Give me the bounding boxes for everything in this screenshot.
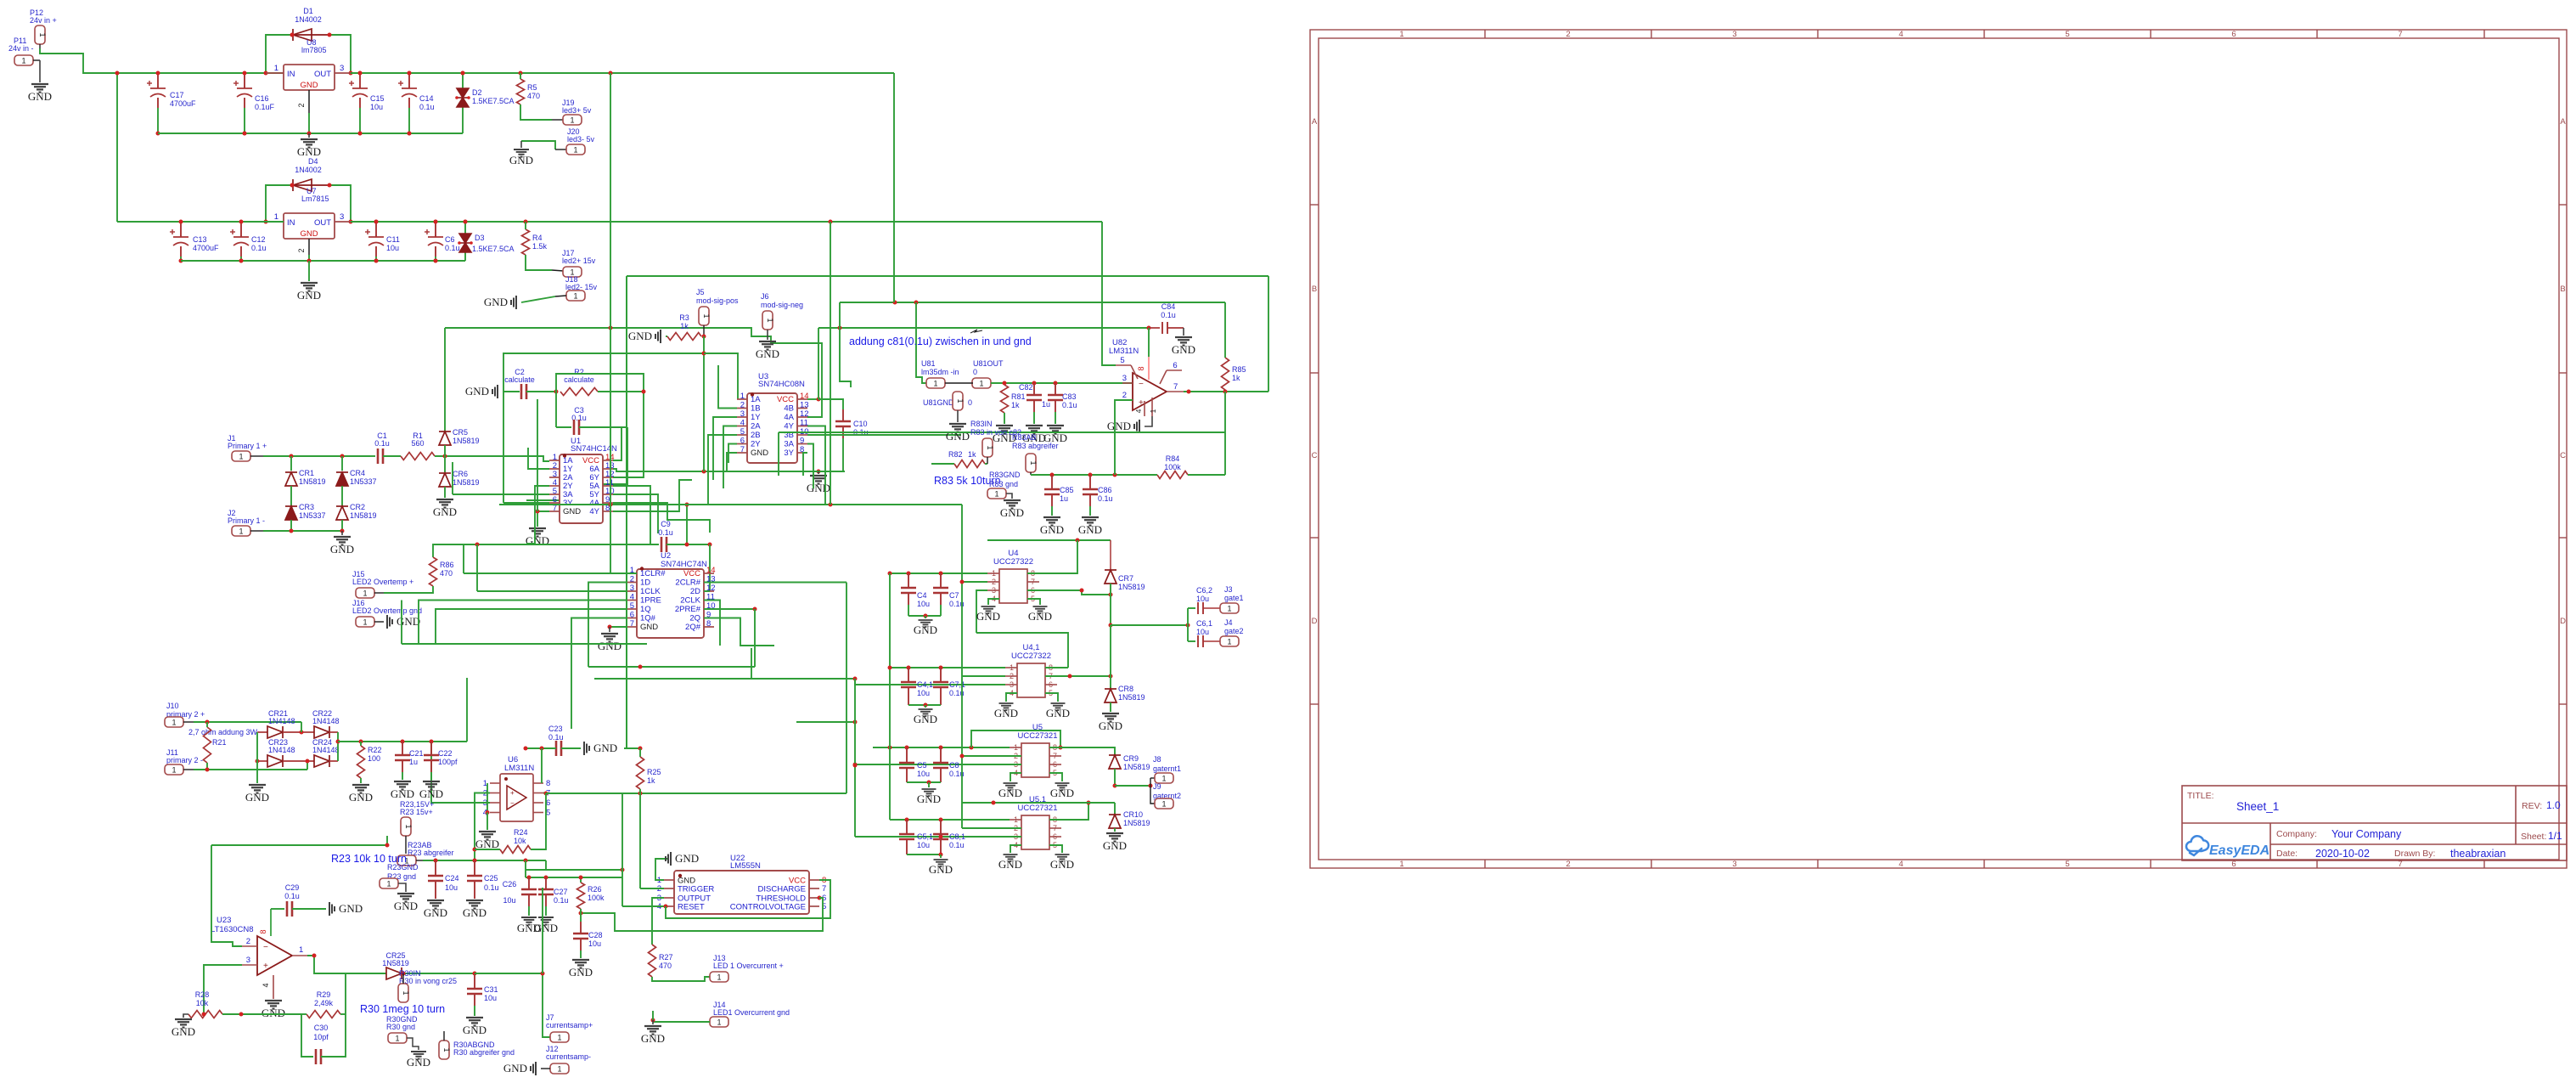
svg-text:1CLR#: 1CLR#: [640, 569, 666, 578]
svg-text:10u: 10u: [484, 994, 497, 1002]
wire U23 pin3: [204, 965, 242, 1014]
svg-text:Date:: Date:: [2276, 849, 2298, 859]
svg-text:1: 1: [172, 765, 176, 774]
ground C27: [538, 917, 554, 925]
svg-text:D1: D1: [303, 7, 313, 15]
resistor R1 560: [401, 453, 435, 460]
wire R1 to U1: [435, 456, 549, 461]
svg-text:3: 3: [1732, 30, 1736, 39]
svg-text:7: 7: [740, 445, 745, 454]
svg-text:10u: 10u: [445, 883, 458, 892]
wire 24v+ to rail: [40, 48, 117, 73]
svg-text:UCC27322: UCC27322: [993, 557, 1033, 567]
ground U5 pin5: [1049, 773, 1062, 781]
wire x643 drop: [545, 860, 547, 870]
wire U22 output to R27: [652, 898, 664, 945]
svg-text:CR1: CR1: [299, 469, 314, 477]
svg-text:R29: R29: [317, 990, 331, 999]
svg-text:C82: C82: [1019, 383, 1033, 392]
diode CR6 1N5819: [444, 456, 446, 472]
svg-text:1A: 1A: [751, 395, 761, 404]
svg-text:14: 14: [800, 392, 809, 401]
ground U3: [818, 471, 819, 474]
svg-text:U23: U23: [217, 916, 231, 925]
wire U8 pin2 to ground rail: [308, 113, 310, 133]
svg-text:13: 13: [800, 401, 809, 410]
svg-text:1N5819: 1N5819: [1123, 763, 1150, 771]
svg-text:addung c81(0.1u) zwischen in u: addung c81(0.1u) zwischen in und gnd: [849, 336, 1032, 347]
svg-text:6: 6: [630, 611, 634, 620]
ground CR6: [444, 487, 446, 498]
wire U6 output: [543, 793, 546, 794]
svg-text:0.1u: 0.1u: [949, 841, 965, 849]
svg-text:calculate: calculate: [564, 375, 594, 384]
svg-text:1: 1: [717, 1018, 721, 1026]
wire feedback rail y995: [386, 836, 388, 845]
svg-text:CR4: CR4: [350, 469, 365, 477]
svg-text:EasyEDA: EasyEDA: [2209, 843, 2269, 858]
wire y945 link: [962, 802, 1115, 804]
wire x974 vertical: [830, 222, 831, 505]
diode CR2 1N5819: [341, 486, 343, 506]
svg-text:1k: 1k: [968, 450, 976, 459]
ground C86: [1082, 517, 1099, 526]
svg-text:R30 abgreifer gnd: R30 abgreifer gnd: [453, 1048, 515, 1057]
ground J2 row: [341, 531, 343, 535]
ground CR10: [1114, 828, 1116, 832]
svg-text:1B: 1B: [751, 404, 761, 414]
wire x633 vertical: [537, 399, 538, 511]
svg-text:TITLE:: TITLE:: [2187, 791, 2214, 801]
svg-text:6: 6: [1053, 832, 1057, 841]
ground J6: [767, 330, 768, 340]
svg-text:C: C: [1312, 451, 1318, 460]
wire lower bus y785: [588, 666, 755, 668]
svg-text:GND: GND: [1050, 858, 1074, 871]
svg-text:R85: R85: [1232, 365, 1246, 374]
svg-text:J10: J10: [166, 702, 179, 710]
ground C28: [572, 960, 589, 968]
svg-text:C85: C85: [1060, 486, 1074, 494]
svg-text:U81OUT: U81OUT: [973, 359, 1004, 368]
wire output bus y934: [546, 793, 846, 794]
svg-text:GND: GND: [300, 229, 318, 239]
svg-text:2B: 2B: [751, 431, 761, 440]
svg-text:2: 2: [297, 248, 306, 252]
svg-text:10u: 10u: [1196, 628, 1209, 636]
svg-text:10u: 10u: [588, 939, 601, 948]
svg-text:3: 3: [1010, 680, 1014, 689]
diode CR5 1N5819: [444, 328, 446, 432]
svg-text:currentsamp-: currentsamp-: [546, 1052, 591, 1061]
wire bridge left leg: [256, 732, 258, 783]
svg-text:TRIGGER: TRIGGER: [678, 885, 714, 894]
svg-text:GND: GND: [424, 906, 447, 919]
wire U6 pin8 supply: [541, 748, 543, 783]
svg-text:A: A: [2560, 117, 2566, 127]
resistor R85 1k: [1222, 358, 1229, 390]
svg-text:8: 8: [546, 779, 550, 788]
svg-text:6: 6: [740, 437, 745, 446]
wire U5 label loop: [971, 730, 1060, 747]
svg-text:0.1uF: 0.1uF: [255, 103, 275, 111]
wire bridge output: [338, 741, 467, 742]
svg-text:2,49k: 2,49k: [314, 999, 334, 1007]
svg-text:SN74HC08N: SN74HC08N: [758, 380, 805, 389]
svg-text:3Y: 3Y: [784, 448, 794, 458]
svg-text:GND: GND: [433, 505, 457, 518]
svg-text:mod-sig-neg: mod-sig-neg: [761, 301, 803, 309]
ground C83: [1047, 426, 1064, 434]
svg-text:0.1u: 0.1u: [1062, 401, 1077, 409]
diode CR3 1N5337: [290, 486, 292, 506]
ground rail bottom of U7 block: [181, 260, 465, 262]
svg-text:1: 1: [557, 1033, 561, 1041]
svg-text:R22: R22: [368, 746, 382, 754]
svg-text:100k: 100k: [1164, 463, 1181, 471]
wire U4 pin2 feed: [962, 581, 987, 583]
svg-text:R82: R82: [948, 450, 963, 459]
svg-text:5: 5: [1120, 356, 1124, 365]
svg-text:0: 0: [973, 368, 977, 376]
svg-text:1: 1: [992, 569, 996, 578]
ground flag J12: [531, 1062, 536, 1075]
svg-text:1N4148: 1N4148: [268, 746, 295, 754]
svg-text:2Q: 2Q: [689, 614, 700, 623]
svg-text:C11: C11: [386, 235, 400, 244]
wire rail y1033: [526, 877, 622, 878]
svg-text:1Y: 1Y: [751, 413, 761, 422]
svg-text:1: 1: [402, 990, 410, 995]
svg-text:1: 1: [766, 318, 774, 322]
svg-text:1: 1: [986, 445, 994, 449]
wire U5 pin8 to CR9: [1049, 747, 1060, 748]
svg-text:CONTROLVOLTAGE: CONTROLVOLTAGE: [730, 903, 806, 912]
svg-text:C14: C14: [419, 94, 434, 103]
svg-text:7: 7: [1031, 578, 1035, 586]
svg-text:GND: GND: [756, 347, 779, 360]
wire U3 vcc: [807, 398, 818, 400]
svg-text:R81: R81: [1011, 392, 1026, 401]
ground C84: [1183, 328, 1184, 336]
svg-text:2CLK: 2CLK: [680, 596, 700, 606]
ground R28: [183, 1014, 188, 1018]
svg-text:LED2 Overtemp +: LED2 Overtemp +: [352, 578, 413, 586]
svg-text:B: B: [2560, 285, 2565, 294]
svg-text:4: 4: [1898, 30, 1903, 39]
wire U6 pins 1 4 gnd: [487, 783, 488, 813]
svg-text:GND: GND: [330, 543, 354, 556]
svg-text:J9: J9: [1153, 782, 1161, 791]
svg-text:R83 abgreifer: R83 abgreifer: [1012, 442, 1059, 450]
svg-text:1Q#: 1Q#: [640, 614, 656, 623]
wire C84 to pin8: [1148, 328, 1150, 357]
ground J14: [652, 1020, 654, 1024]
ground U4,1 pin5: [1045, 693, 1058, 702]
svg-text:1/1: 1/1: [2548, 830, 2562, 842]
svg-text:R30 gnd: R30 gnd: [386, 1023, 415, 1031]
resistor R5 470: [517, 79, 525, 104]
wire x733 vertical: [622, 793, 623, 906]
wire U1 left pin feeds: [453, 494, 549, 495]
svg-text:100pf: 100pf: [438, 758, 458, 766]
ground U5,1 pin4: [1010, 845, 1021, 853]
svg-text:J3: J3: [1224, 585, 1233, 594]
wire U4 top loop: [987, 539, 1111, 541]
wire U4,1 pin3 feed: [855, 678, 1005, 685]
svg-text:1: 1: [1014, 815, 1018, 824]
svg-text:R28: R28: [195, 990, 210, 999]
diode CR8 1N5819: [1110, 676, 1111, 689]
svg-text:C31: C31: [484, 985, 498, 994]
wire U1 pin13 bus: [613, 469, 845, 471]
wire U5,1 pin3 feed: [855, 836, 1021, 838]
svg-text:R83 gnd: R83 gnd: [989, 480, 1018, 488]
wire vcc bus y386: [818, 327, 1149, 329]
svg-text:A: A: [1312, 117, 1318, 127]
wire U5,1 pin8 to CR10: [1049, 803, 1088, 820]
svg-text:4Y: 4Y: [784, 422, 794, 432]
resistor R4 1.5k: [522, 229, 530, 255]
svg-text:2: 2: [1010, 672, 1014, 680]
svg-text:C86: C86: [1098, 486, 1112, 494]
svg-text:GND: GND: [929, 863, 953, 876]
svg-text:5: 5: [2065, 30, 2069, 39]
svg-text:LT1630CN8: LT1630CN8: [211, 925, 254, 934]
svg-text:1: 1: [1161, 774, 1166, 782]
wire CR5 net long: [445, 328, 822, 417]
svg-text:+: +: [263, 962, 268, 971]
svg-text:2D: 2D: [690, 587, 700, 596]
svg-text:C27: C27: [554, 888, 568, 896]
wire U23 output: [307, 956, 386, 973]
svg-text:1N4148: 1N4148: [268, 717, 295, 725]
wire threshold loop: [581, 898, 823, 931]
svg-text:1CLK: 1CLK: [640, 587, 661, 596]
svg-text:D: D: [2560, 617, 2566, 626]
svg-text:GND: GND: [628, 330, 652, 342]
svg-text:2A: 2A: [751, 422, 761, 432]
svg-text:C9: C9: [661, 520, 671, 528]
svg-text:R25: R25: [647, 768, 661, 776]
svg-text:C10: C10: [853, 420, 868, 428]
resistor R25 1k: [639, 748, 641, 757]
wire J2 row: [263, 530, 342, 532]
wire U5,1 pin2 feed: [962, 827, 1021, 829]
svg-text:GND: GND: [593, 742, 617, 754]
svg-text:1: 1: [363, 618, 367, 626]
wire R28 R29 rail: [222, 1013, 301, 1015]
diode CR10 1N5819: [1109, 815, 1121, 828]
svg-text:1N5819: 1N5819: [453, 437, 480, 445]
svg-text:1: 1: [933, 379, 937, 387]
wire U5 pin3 feed: [855, 764, 1021, 765]
wire y850 stub: [796, 721, 855, 723]
svg-text:C8: C8: [949, 761, 959, 770]
svg-text:calculate: calculate: [504, 375, 535, 384]
svg-text:6: 6: [2231, 30, 2236, 39]
svg-text:R83AB: R83AB: [1012, 433, 1037, 442]
svg-text:1: 1: [570, 116, 574, 124]
svg-text:10u: 10u: [503, 896, 515, 905]
connector J13 LED 1 Overcurrent +: [652, 977, 710, 981]
ground near J20: [520, 141, 522, 148]
ground C31: [466, 1018, 483, 1026]
ground near P11: [39, 60, 41, 82]
svg-text:GND: GND: [1050, 787, 1074, 799]
svg-text:4Y: 4Y: [589, 507, 599, 516]
svg-text:9: 9: [800, 437, 804, 446]
svg-text:14: 14: [706, 566, 716, 575]
svg-text:GND: GND: [917, 793, 941, 805]
svg-text:1u: 1u: [409, 758, 418, 766]
svg-text:1N5337: 1N5337: [299, 511, 326, 520]
svg-text:1: 1: [956, 398, 965, 403]
wire 15v rail: [351, 221, 830, 223]
wire x1133 vertical: [961, 505, 963, 828]
svg-text:C25: C25: [484, 874, 498, 883]
svg-text:GND: GND: [994, 707, 1018, 719]
svg-text:1k: 1k: [1232, 374, 1240, 382]
svg-text:C: C: [2560, 451, 2566, 460]
wire x550 up: [466, 678, 468, 742]
wire U5 pin2 feed: [962, 755, 1021, 757]
wire U2 right pins mesh: [704, 582, 846, 584]
ground U6: [479, 832, 496, 840]
wire U3 left pins mesh: [718, 365, 737, 409]
ground C22: [423, 781, 440, 790]
svg-text:10u: 10u: [917, 600, 930, 608]
svg-text:currentsamp+: currentsamp+: [546, 1021, 593, 1029]
svg-text:0.1u: 0.1u: [374, 439, 390, 448]
svg-text:GND: GND: [1172, 343, 1195, 356]
wire y799 link: [594, 678, 855, 680]
wire U6 pin3 feed: [431, 742, 490, 803]
svg-text:1: 1: [395, 1034, 399, 1042]
svg-text:Your Company: Your Company: [2331, 828, 2402, 840]
wire to gate caps: [1111, 624, 1188, 626]
svg-text:led3- 5v: led3- 5v: [567, 135, 595, 144]
svg-text:CR5: CR5: [453, 428, 468, 437]
svg-text:C6: C6: [445, 235, 455, 244]
svg-text:2: 2: [297, 103, 306, 107]
svg-text:Drawn By:: Drawn By:: [2394, 849, 2435, 859]
ground flag C23: [584, 742, 589, 755]
svg-text:1: 1: [274, 212, 278, 222]
svg-text:4: 4: [262, 983, 270, 987]
svg-text:LED 1 Overcurrent +: LED 1 Overcurrent +: [713, 962, 784, 970]
svg-text:2: 2: [740, 401, 745, 410]
wire x809 vertical: [686, 505, 688, 544]
svg-text:2,7 ohm addung 3W: 2,7 ohm addung 3W: [188, 728, 258, 736]
ground J11 row: [249, 785, 266, 793]
svg-text:1: 1: [573, 145, 577, 154]
wire x619 drop: [525, 860, 526, 877]
svg-text:5: 5: [630, 601, 634, 611]
svg-text:GND: GND: [391, 787, 414, 800]
svg-text:1N4148: 1N4148: [312, 746, 340, 754]
svg-text:1: 1: [274, 64, 278, 73]
svg-text:560: 560: [411, 439, 424, 448]
connector J17 led2+ 15v: [526, 255, 552, 270]
svg-text:1: 1: [1161, 799, 1166, 808]
svg-text:1.5KE7.5CA: 1.5KE7.5CA: [472, 97, 515, 105]
svg-text:7: 7: [822, 884, 826, 894]
svg-text:lm35dm -in: lm35dm -in: [921, 368, 959, 376]
svg-text:11: 11: [800, 419, 808, 428]
svg-text:1N5819: 1N5819: [1118, 583, 1145, 591]
svg-text:1: 1: [386, 879, 391, 888]
svg-text:1: 1: [979, 379, 983, 387]
svg-text:C28: C28: [588, 931, 603, 939]
wire U23 pin2 feedback: [211, 845, 242, 946]
svg-text:IN: IN: [287, 218, 295, 228]
wire J11 row: [194, 769, 307, 770]
resistor R86 470: [433, 544, 477, 557]
svg-text:7: 7: [1173, 382, 1178, 392]
svg-text:gate2: gate2: [1224, 627, 1244, 635]
svg-text:C84: C84: [1161, 302, 1176, 311]
svg-text:1: 1: [1029, 460, 1038, 465]
ground flag J16: [387, 615, 392, 629]
svg-text:C5: C5: [917, 761, 927, 770]
svg-text:7: 7: [1053, 752, 1057, 760]
svg-text:10u: 10u: [917, 841, 930, 849]
wire CR24 out: [337, 742, 339, 761]
sheet frame border: [1310, 30, 2567, 868]
svg-text:1: 1: [404, 824, 413, 828]
svg-text:GND: GND: [1000, 506, 1024, 519]
wire x1443 to R84 rail: [1224, 432, 1226, 475]
svg-text:GND: GND: [509, 154, 533, 166]
svg-text:5: 5: [740, 427, 745, 437]
svg-text:theabraxian: theabraxian: [2450, 848, 2506, 860]
svg-text:C6,1: C6,1: [1196, 619, 1212, 628]
svg-text:GND: GND: [998, 787, 1022, 799]
ground C25: [466, 900, 483, 909]
svg-text:GND: GND: [463, 1024, 487, 1036]
svg-text:R23GND: R23GND: [387, 863, 419, 871]
resistor R2 calculate: [560, 388, 598, 396]
svg-text:1N4002: 1N4002: [295, 166, 322, 174]
svg-text:C26: C26: [503, 880, 517, 888]
svg-text:1: 1: [21, 56, 25, 65]
ground bus under U3: [727, 453, 737, 471]
svg-text:100k: 100k: [588, 894, 605, 902]
svg-text:REV:: REV:: [2522, 801, 2542, 811]
svg-text:R23 15v+: R23 15v+: [400, 808, 433, 816]
ground U8 block: [308, 133, 310, 138]
svg-text:3: 3: [246, 956, 250, 965]
wire U6 pin2 feed: [475, 793, 490, 861]
svg-text:4B: 4B: [784, 404, 794, 414]
wire U4,1 pin1 rail: [890, 667, 1005, 668]
svg-text:1D: 1D: [640, 578, 650, 588]
svg-text:1u: 1u: [1042, 400, 1050, 409]
svg-text:C23: C23: [548, 725, 563, 733]
svg-text:1: 1: [1227, 637, 1231, 646]
svg-text:1: 1: [239, 452, 243, 460]
svg-text:0.1u: 0.1u: [554, 896, 569, 905]
svg-text:LM311N: LM311N: [1109, 347, 1139, 356]
wire U2 left pins mesh: [464, 573, 637, 574]
svg-text:10u: 10u: [386, 244, 399, 252]
svg-text:4700uF: 4700uF: [170, 99, 196, 108]
svg-text:GND: GND: [675, 852, 699, 865]
wire x1048 vertical upper: [889, 573, 891, 747]
svg-text:OUT: OUT: [314, 70, 331, 79]
svg-text:1N5337: 1N5337: [350, 477, 377, 486]
